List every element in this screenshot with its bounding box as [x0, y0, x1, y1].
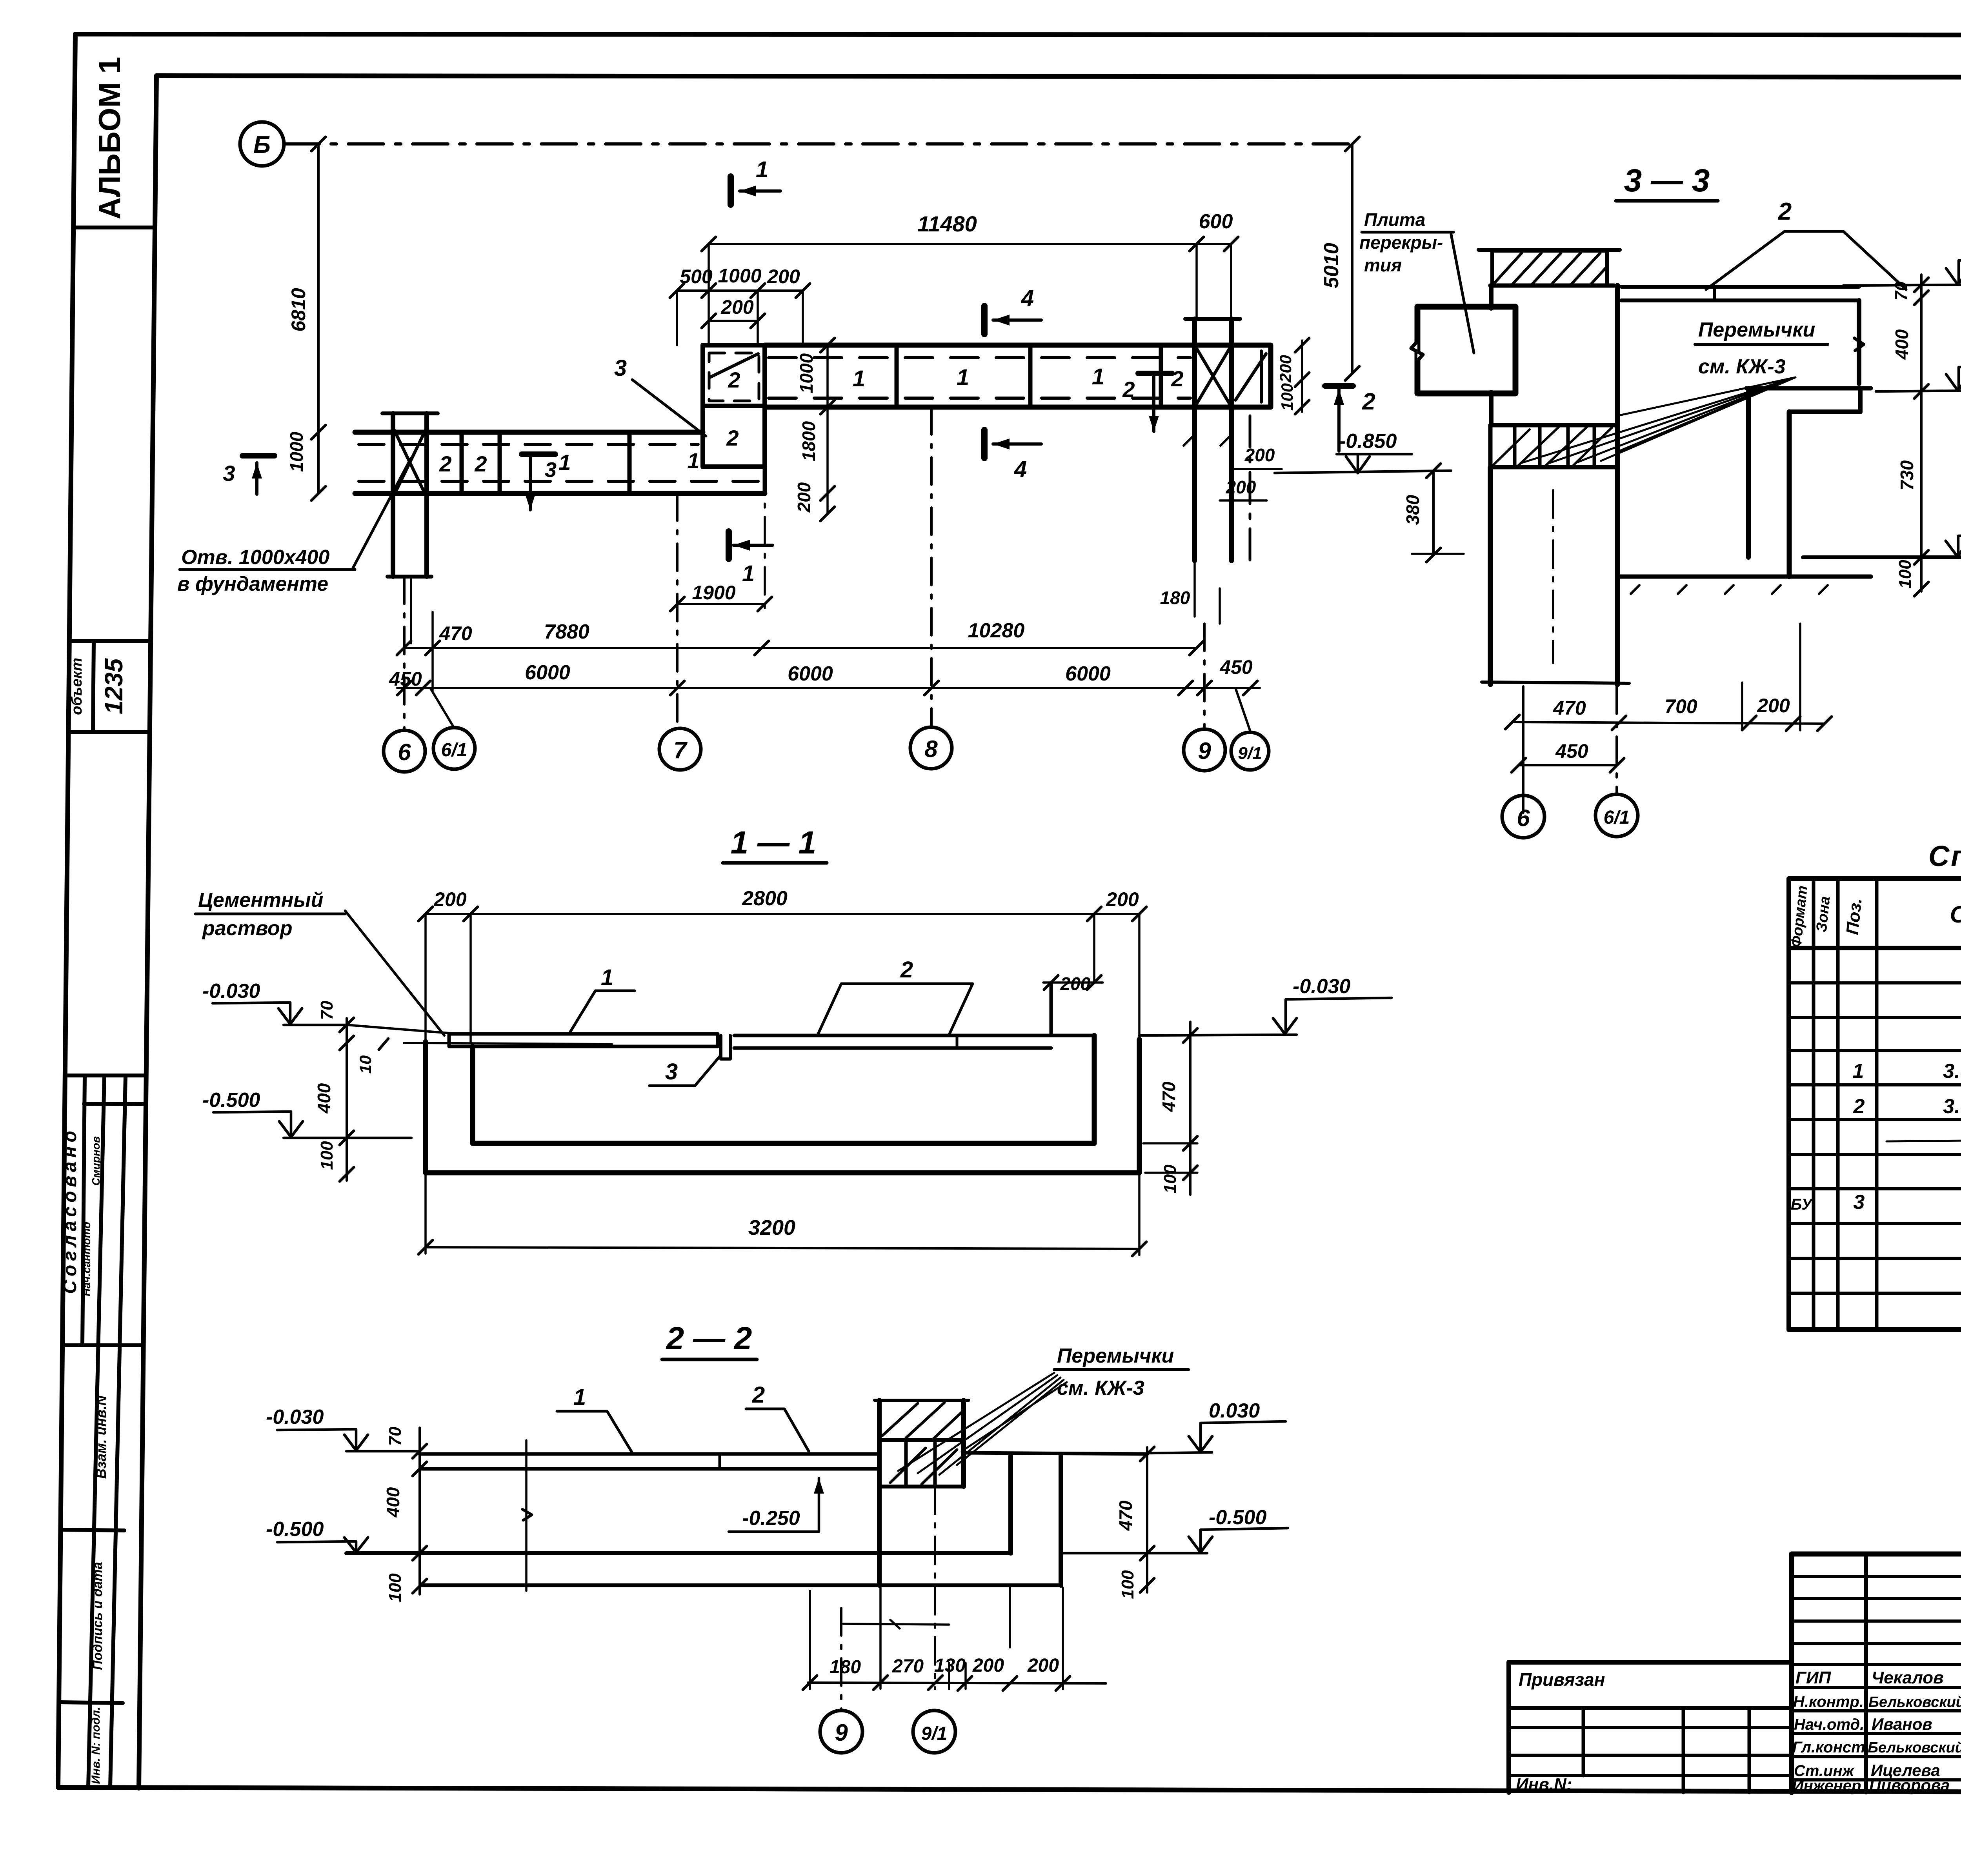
svg-text:1800: 1800: [799, 421, 819, 461]
svg-text:730: 730: [1897, 460, 1917, 490]
svg-text:2: 2: [752, 1382, 765, 1408]
svg-text:3: 3: [665, 1059, 678, 1084]
svg-text:Гл.конст.: Гл.конст.: [1792, 1739, 1869, 1756]
svg-text:2: 2: [900, 957, 913, 983]
svg-text:3: 3: [1854, 1191, 1865, 1214]
svg-text:3: 3: [223, 461, 235, 486]
svg-text:1900: 1900: [692, 582, 735, 604]
svg-text:тия: тия: [1364, 255, 1402, 275]
svg-text:Согласовано: Согласовано: [60, 1127, 80, 1294]
svg-text:1: 1: [957, 365, 969, 390]
svg-text:2: 2: [439, 451, 451, 476]
svg-text:Привязан: Привязан: [1519, 1669, 1605, 1690]
svg-text:200: 200: [720, 296, 754, 318]
svg-text:200: 200: [794, 482, 814, 513]
svg-text:Отв. 1000х400: Отв. 1000х400: [181, 546, 329, 569]
svg-text:Бельковский: Бельковский: [1868, 1740, 1961, 1756]
svg-text:450: 450: [1219, 656, 1253, 678]
svg-text:200: 200: [1244, 445, 1275, 465]
svg-text:470: 470: [1553, 697, 1586, 719]
svg-text:1000: 1000: [796, 353, 817, 393]
svg-text:1: 1: [601, 965, 613, 990]
svg-text:-0.500: -0.500: [1209, 1506, 1267, 1529]
svg-text:АЛЬБОМ 1: АЛЬБОМ 1: [92, 57, 127, 220]
svg-text:200: 200: [1106, 888, 1139, 910]
svg-text:3: 3: [614, 355, 627, 381]
svg-text:200: 200: [433, 888, 467, 910]
svg-text:1: 1: [1092, 364, 1104, 389]
svg-text:2 — 2: 2 — 2: [666, 1321, 752, 1356]
svg-text:Спецификация канала КН3: Спецификация канала КН3: [1928, 840, 1961, 872]
svg-text:11480: 11480: [917, 211, 977, 236]
svg-text:380: 380: [1403, 495, 1423, 525]
svg-text:700: 700: [1664, 695, 1697, 717]
svg-text:470: 470: [1159, 1081, 1179, 1112]
svg-text:см. КЖ-3: см. КЖ-3: [1057, 1377, 1144, 1399]
svg-text:6000: 6000: [788, 662, 833, 685]
svg-text:1: 1: [853, 366, 865, 391]
svg-text:100: 100: [1278, 383, 1296, 411]
svg-text:Б: Б: [253, 131, 271, 158]
svg-text:8: 8: [924, 736, 938, 762]
svg-text:-0.500: -0.500: [266, 1518, 324, 1541]
svg-text:2: 2: [728, 368, 740, 392]
svg-text:Взам. инв.N: Взам. инв.N: [93, 1395, 109, 1479]
svg-text:1: 1: [742, 561, 755, 586]
svg-text:180: 180: [1160, 588, 1190, 608]
svg-text:Плита: Плита: [1364, 209, 1425, 230]
svg-text:7: 7: [673, 737, 688, 763]
svg-text:2: 2: [1362, 388, 1375, 415]
svg-text:раствор: раствор: [202, 917, 292, 940]
svg-text:Нач.сантотд: Нач.сантотд: [80, 1222, 93, 1296]
svg-text:см. КЖ-3: см. КЖ-3: [1698, 355, 1786, 378]
svg-text:9: 9: [835, 1720, 848, 1746]
svg-text:-0.030: -0.030: [202, 980, 260, 1003]
svg-text:3200: 3200: [748, 1216, 795, 1239]
svg-text:4: 4: [1014, 457, 1027, 482]
svg-text:10280: 10280: [968, 619, 1025, 642]
svg-text:2: 2: [474, 451, 487, 476]
svg-text:Обозначение: Обозначение: [1950, 901, 1961, 928]
svg-text:-0.030: -0.030: [266, 1406, 324, 1428]
svg-text:100: 100: [317, 1141, 337, 1170]
svg-text:1000: 1000: [718, 265, 761, 287]
svg-text:200: 200: [1027, 1655, 1059, 1676]
svg-text:400: 400: [314, 1083, 334, 1114]
svg-text:70: 70: [317, 1001, 337, 1020]
svg-text:Зона: Зона: [1813, 895, 1833, 933]
svg-text:Чекалов: Чекалов: [1872, 1668, 1944, 1687]
svg-text:Цементный: Цементный: [198, 889, 323, 912]
svg-text:1235: 1235: [100, 658, 128, 714]
svg-text:10: 10: [356, 1055, 375, 1074]
svg-text:6: 6: [1517, 805, 1530, 831]
svg-text:Смирнов: Смирнов: [90, 1136, 102, 1186]
svg-text:100: 100: [1118, 1570, 1137, 1599]
svg-text:200: 200: [767, 266, 800, 287]
svg-text:Перемычки: Перемычки: [1057, 1345, 1174, 1367]
svg-text:70: 70: [1892, 281, 1911, 300]
svg-text:200: 200: [1226, 477, 1256, 497]
svg-text:6/1: 6/1: [441, 740, 468, 761]
svg-text:Н.контр.: Н.контр.: [1793, 1693, 1864, 1710]
svg-text:3.006.1-2/82 в.1-2: 3.006.1-2/82 в.1-2: [1943, 1095, 1961, 1118]
svg-text:-0.250: -0.250: [742, 1507, 800, 1530]
svg-text:2: 2: [1778, 198, 1792, 225]
svg-text:450: 450: [1555, 740, 1588, 762]
svg-text:200: 200: [1757, 695, 1790, 717]
svg-text:7880: 7880: [544, 620, 589, 643]
svg-text:Перемычки: Перемычки: [1698, 318, 1815, 341]
svg-text:0.030: 0.030: [1209, 1399, 1260, 1422]
svg-text:470: 470: [1115, 1500, 1136, 1531]
svg-text:2: 2: [1853, 1095, 1865, 1118]
svg-text:9/1: 9/1: [921, 1723, 948, 1744]
svg-text:180: 180: [830, 1657, 861, 1678]
svg-text:5010: 5010: [1320, 243, 1343, 288]
svg-text:2: 2: [1122, 377, 1135, 402]
svg-text:100: 100: [386, 1573, 405, 1602]
svg-text:400: 400: [383, 1487, 403, 1518]
svg-text:1: 1: [1853, 1060, 1864, 1083]
svg-text:470: 470: [439, 622, 472, 644]
svg-text:-0.850: -0.850: [1339, 430, 1397, 453]
svg-text:200: 200: [1060, 973, 1091, 994]
svg-text:100: 100: [1896, 560, 1915, 589]
svg-text:200: 200: [972, 1655, 1004, 1676]
svg-text:Подпись и дата: Подпись и дата: [90, 1562, 105, 1670]
svg-text:1: 1: [558, 450, 571, 475]
svg-text:Пиворова: Пиворова: [1869, 1776, 1950, 1794]
svg-text:Инженер: Инженер: [1792, 1777, 1861, 1794]
svg-text:объект: объект: [69, 658, 85, 715]
svg-text:Инв. N: подл.: Инв. N: подл.: [89, 1707, 102, 1784]
svg-text:4: 4: [1021, 286, 1034, 311]
svg-text:200: 200: [1276, 355, 1295, 383]
svg-text:6: 6: [398, 739, 411, 765]
svg-text:6000: 6000: [525, 661, 570, 684]
svg-text:6000: 6000: [1065, 662, 1111, 685]
svg-text:70: 70: [386, 1427, 405, 1446]
svg-text:9: 9: [1198, 738, 1211, 764]
svg-text:1000: 1000: [286, 431, 307, 472]
svg-text:2: 2: [1171, 366, 1183, 391]
svg-text:2800: 2800: [742, 887, 788, 910]
svg-text:БУ: БУ: [1791, 1196, 1813, 1213]
svg-text:2: 2: [726, 426, 739, 450]
svg-text:Иванов: Иванов: [1872, 1715, 1932, 1733]
svg-text:Формат: Формат: [1788, 885, 1811, 948]
svg-text:Поз.: Поз.: [1843, 897, 1865, 936]
svg-text:100: 100: [1161, 1165, 1180, 1194]
svg-text:6/1: 6/1: [1604, 807, 1630, 828]
svg-text:в фундаменте: в фундаменте: [177, 573, 328, 595]
svg-text:-0.500: -0.500: [202, 1089, 260, 1112]
svg-text:3: 3: [545, 458, 557, 482]
svg-text:6810: 6810: [287, 288, 309, 331]
svg-text:-0.030: -0.030: [1293, 975, 1351, 998]
svg-text:Нач.отд.: Нач.отд.: [1794, 1716, 1864, 1733]
svg-text:3 — 3: 3 — 3: [1624, 163, 1710, 198]
svg-text:3.006.1-2/82 в.1-2: 3.006.1-2/82 в.1-2: [1943, 1060, 1961, 1083]
svg-text:400: 400: [1892, 329, 1912, 360]
svg-text:Инв.N:: Инв.N:: [1516, 1775, 1572, 1794]
svg-text:1: 1: [687, 448, 699, 473]
svg-text:500: 500: [680, 266, 713, 287]
svg-text:ГИП: ГИП: [1795, 1668, 1832, 1687]
svg-text:перекры-: перекры-: [1359, 232, 1443, 253]
svg-text:1 — 1: 1 — 1: [731, 825, 817, 861]
svg-text:1: 1: [756, 157, 768, 182]
svg-text:1: 1: [573, 1385, 586, 1410]
svg-text:600: 600: [1199, 210, 1233, 233]
svg-text:270: 270: [892, 1656, 924, 1677]
svg-text:9/1: 9/1: [1238, 744, 1262, 763]
svg-text:Бельковский: Бельковский: [1868, 1694, 1961, 1710]
